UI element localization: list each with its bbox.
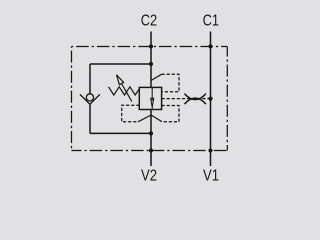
junction dot C1/pilot middle xyxy=(208,97,212,101)
svg-text:V2: V2 xyxy=(141,167,157,184)
pilot line middle to C1 (dashed) xyxy=(162,98,211,100)
enclosure dash-dot boundary box xyxy=(72,46,228,48)
valve body square xyxy=(139,87,161,109)
valve flow arrow xyxy=(151,88,154,109)
orifice restriction xyxy=(184,94,206,105)
check valve seat xyxy=(80,94,100,104)
pilot line lower left loop (dashed) xyxy=(122,105,140,122)
junction dot C2/check branch top xyxy=(149,62,153,66)
svg-text:V1: V1 xyxy=(203,167,219,184)
port line C1 (vertical) xyxy=(210,32,212,167)
svg-text:C1: C1 xyxy=(203,12,219,29)
check valve ball xyxy=(86,94,93,101)
pilot line upper loop (dashed) xyxy=(162,74,180,91)
spring adjustment arrow xyxy=(117,75,132,102)
spring (adjustable) xyxy=(109,87,140,95)
pilot tap diagonal lower left xyxy=(138,115,151,122)
pilot line lower right loop (dashed) xyxy=(162,106,180,122)
wire check-valve branch left lower xyxy=(89,104,91,133)
wire check-valve branch left upper xyxy=(89,64,91,94)
junction dot C1/border bottom xyxy=(208,148,212,152)
pilot tap diagonal upper (from C2 line) xyxy=(151,74,162,80)
port line C2 (vertical) xyxy=(150,32,152,167)
junction dot C2/border top xyxy=(149,44,153,48)
wire check-valve branch bottom xyxy=(90,132,151,134)
pilot tap diagonal lower right xyxy=(151,115,162,122)
junction dot C1/border top xyxy=(208,44,212,48)
wire check-valve branch top xyxy=(90,63,151,65)
junction dot C2/check branch bottom xyxy=(149,131,153,135)
svg-text:C2: C2 xyxy=(141,12,157,29)
junction dot C2/border bottom xyxy=(149,148,153,152)
